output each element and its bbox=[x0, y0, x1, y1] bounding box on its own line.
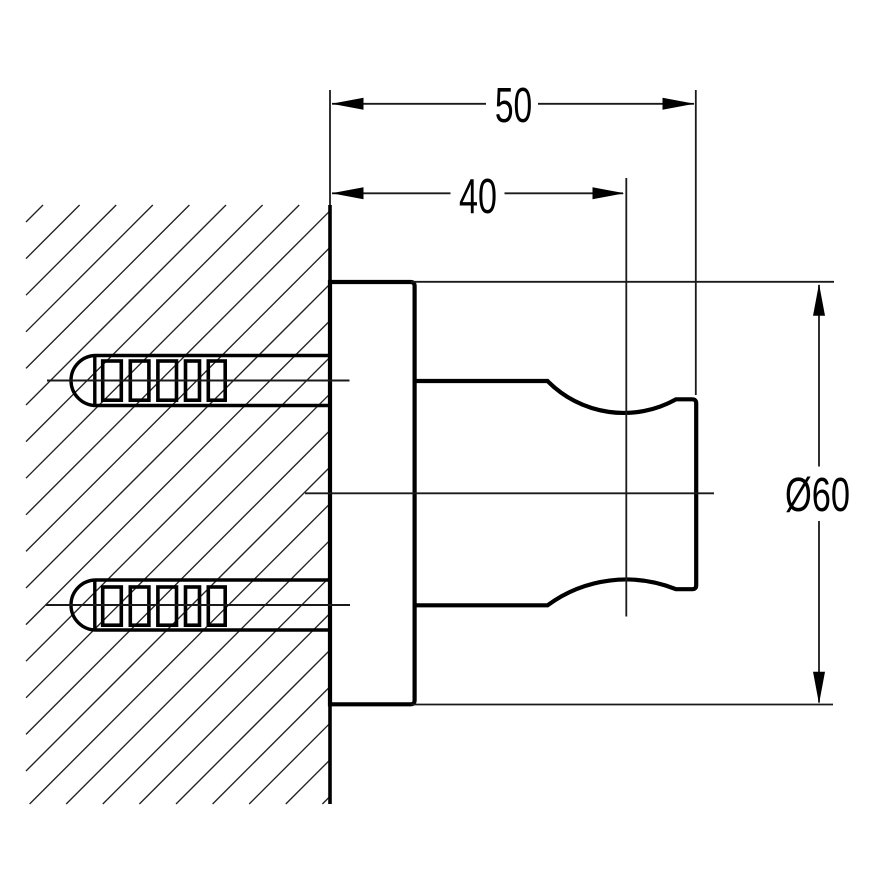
svg-text:40: 40 bbox=[459, 169, 497, 224]
extension line right of dim 50 bbox=[695, 90, 697, 395]
dimension text 50 bbox=[495, 78, 532, 133]
svg-text:Ø60: Ø60 bbox=[785, 467, 850, 521]
arrow top of dim 60 bbox=[813, 284, 825, 316]
extension line bottom of dim 60 bbox=[411, 704, 833, 706]
upper anchor slots bbox=[103, 361, 226, 400]
arrow right of dim 50 bbox=[663, 98, 695, 110]
dimension text Ø60 bbox=[785, 467, 850, 521]
dimension line 50 bbox=[332, 103, 486, 105]
wall face line bbox=[328, 205, 332, 804]
lower wall anchor body bbox=[71, 580, 330, 630]
upper anchor centerline bbox=[47, 380, 350, 382]
lower anchor slots bbox=[103, 587, 226, 625]
wall hatching bbox=[26, 205, 330, 804]
wall mounting plate (side view) bbox=[330, 282, 415, 704]
extension line top of dim 60 bbox=[411, 281, 834, 283]
holder horizontal centerline bbox=[305, 492, 714, 494]
upper wall anchor body bbox=[71, 356, 330, 406]
extension line right of dim 40 bbox=[625, 178, 627, 617]
arrow bottom of dim 60 bbox=[813, 672, 825, 704]
dimension text 40 bbox=[459, 169, 497, 224]
arrow left of dim 50 bbox=[332, 98, 364, 110]
arrow left of dim 40 bbox=[332, 187, 364, 199]
svg-text:50: 50 bbox=[495, 78, 532, 133]
dimension line 40 bbox=[332, 192, 451, 194]
arrow right of dim 40 bbox=[593, 187, 625, 199]
lower anchor centerline bbox=[46, 604, 350, 606]
extension line left (wall face) for dims 50/40 bbox=[329, 90, 331, 205]
dimension line 60 (vertical) bbox=[818, 285, 820, 467]
holder body (side view) bbox=[415, 381, 697, 605]
